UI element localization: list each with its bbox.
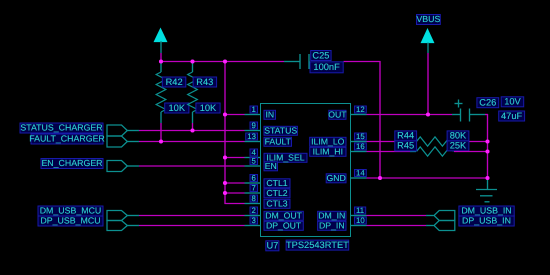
- wire: VBUS to OUT net: [427, 53, 429, 114]
- U7 pin 13 (FAULT): [245, 132, 292, 147]
- svg-text:DP_USB_IN: DP_USB_IN: [462, 216, 511, 226]
- wire: ILIM_HI to R45: [367, 151, 411, 153]
- wire: rail to IN/ILIM_SEL/CTL bus: [224, 61, 226, 204]
- IC U7 TPS2543RTET body: [261, 104, 351, 237]
- wire: pin 11 to DM_USB_IN: [367, 215, 427, 217]
- svg-text:CTL3: CTL3: [266, 198, 287, 208]
- junction: bus / CTL1: [223, 181, 227, 185]
- svg-text:TPS2543RTET: TPS2543RTET: [286, 240, 349, 250]
- hierarchical pin DM_USB_MCU: [38, 206, 139, 221]
- svg-text:GND: GND: [326, 173, 345, 183]
- svg-text:R43: R43: [196, 77, 213, 87]
- wire: ILIM_LO to R44: [367, 141, 411, 143]
- junction: right rail / R44: [485, 139, 489, 143]
- svg-text:STATUS_CHARGER: STATUS_CHARGER: [20, 123, 102, 133]
- svg-text:6: 6: [252, 173, 256, 182]
- U7 pin 10 (DP_IN): [318, 216, 367, 231]
- svg-text:C25: C25: [312, 50, 329, 60]
- resistor R45: [395, 141, 469, 156]
- resistor R42: [156, 61, 189, 123]
- U7 reference designator: [266, 241, 279, 251]
- svg-text:C26: C26: [479, 98, 496, 108]
- U7 pin 12 (OUT): [328, 105, 366, 120]
- svg-text:15: 15: [356, 132, 365, 141]
- svg-text:10K: 10K: [169, 103, 186, 113]
- power arrow (input supply): [155, 29, 167, 53]
- svg-text:DM_USB_MCU: DM_USB_MCU: [40, 206, 102, 216]
- svg-text:ILIM_HI: ILIM_HI: [313, 146, 343, 156]
- junction: OUT / VBUS: [426, 112, 430, 116]
- U7 pin 16 (ILIM_HI): [310, 142, 367, 157]
- svg-text:10: 10: [356, 216, 365, 225]
- wire: bus to pin ILIM_SEL: [225, 157, 245, 159]
- svg-text:R42: R42: [166, 77, 183, 87]
- wire: C25 to GND net: [344, 61, 381, 179]
- U7 pin 11 (DM_IN): [318, 206, 367, 221]
- wire: R45 to right rail: [454, 151, 487, 153]
- junction: rail / R43: [190, 59, 194, 63]
- U7 pin 3 (DP_OUT): [245, 216, 304, 231]
- wire: STATUS_CHARGER to pin 9: [139, 130, 245, 132]
- svg-text:3: 3: [252, 216, 256, 225]
- svg-text:DP_IN: DP_IN: [319, 220, 345, 230]
- capacitor C25: [284, 50, 343, 73]
- ground: [476, 178, 497, 202]
- svg-text:25K: 25K: [450, 141, 467, 151]
- hierarchical pin DP_USB_MCU: [38, 216, 139, 231]
- wire: bus to pin CTL3: [225, 203, 245, 205]
- wire: pin 14 GND to ground: [367, 177, 488, 179]
- wire: OUT to C26: [367, 114, 453, 116]
- svg-text:R44: R44: [397, 131, 414, 141]
- svg-text:CTL1: CTL1: [266, 178, 287, 188]
- wire: supply stem: [160, 53, 162, 62]
- wire: pin 10 to DP_USB_IN: [367, 225, 427, 227]
- svg-text:ILIM_LO: ILIM_LO: [311, 136, 345, 146]
- junction: rail / IN bus: [223, 59, 227, 63]
- U7 pin 8 (CTL3): [245, 194, 291, 209]
- hierarchical pin DM_USB_IN: [426, 206, 514, 221]
- junction: bus / ILIM_SEL: [223, 155, 227, 159]
- wire: R43 to STATUS net: [192, 123, 194, 131]
- svg-text:13: 13: [247, 132, 256, 141]
- U7 pin 5 (EN): [245, 156, 278, 171]
- svg-text:DM_IN: DM_IN: [318, 210, 345, 220]
- junction: R43 / STATUS: [190, 128, 194, 132]
- wire: EN_CHARGER to pin 5: [139, 165, 245, 167]
- junction: C25 / GND wire: [378, 176, 382, 180]
- U7 pin 7 (CTL2): [245, 183, 291, 198]
- wire: DM_USB_MCU to pin 2: [139, 215, 245, 217]
- junction: bus / CTL2: [223, 191, 227, 195]
- wire: bus to pin CTL2: [225, 192, 245, 194]
- svg-text:11: 11: [356, 206, 364, 215]
- resistor R43: [188, 61, 220, 123]
- wire: DP_USB_MCU to pin 3: [139, 225, 245, 227]
- U7 pin 2 (DM_OUT): [245, 206, 304, 221]
- junction: R42 / FAULT: [159, 139, 163, 143]
- svg-text:100nF: 100nF: [313, 62, 340, 72]
- svg-text:U7: U7: [266, 241, 278, 251]
- hierarchical pin EN_CHARGER: [41, 158, 139, 171]
- svg-text:10V: 10V: [504, 97, 521, 107]
- svg-text:47uF: 47uF: [501, 111, 523, 121]
- svg-text:5: 5: [252, 156, 257, 165]
- wire: R42 to FAULT net: [160, 123, 162, 142]
- svg-text:DP_USB_MCU: DP_USB_MCU: [40, 216, 100, 226]
- svg-text:12: 12: [356, 105, 365, 114]
- svg-text:OUT: OUT: [328, 109, 347, 119]
- label 10V: [501, 97, 524, 107]
- U7 pin 14 (GND): [326, 168, 366, 183]
- junction: bus / IN: [223, 112, 227, 116]
- svg-text:16: 16: [356, 142, 365, 151]
- wire: bus to pin IN: [225, 114, 245, 116]
- svg-text:EN_CHARGER: EN_CHARGER: [41, 158, 102, 168]
- svg-text:1: 1: [252, 105, 256, 114]
- svg-text:DM_OUT: DM_OUT: [265, 210, 302, 220]
- svg-text:STATUS: STATUS: [264, 125, 297, 135]
- capacitor C26 (polarized): [452, 98, 525, 122]
- power flag VBUS: [416, 14, 440, 53]
- U7 pin 9 (STATUS): [245, 121, 298, 136]
- svg-text:VBUS: VBUS: [416, 14, 440, 24]
- svg-text:80K: 80K: [450, 131, 467, 141]
- junction: right rail / R45: [485, 149, 489, 153]
- svg-text:EN: EN: [265, 161, 277, 171]
- svg-text:CTL2: CTL2: [266, 188, 287, 198]
- wire: supply rail: [161, 61, 285, 63]
- svg-text:10K: 10K: [200, 103, 217, 113]
- U7 pin 4 (ILIM_SEL): [245, 148, 308, 163]
- junction: right rail / GND wire: [485, 176, 489, 180]
- hierarchical pin STATUS_CHARGER: [20, 123, 139, 136]
- U7 pin 1 (IN): [245, 105, 276, 120]
- wire: FAULT_CHARGER to pin 13: [139, 141, 245, 143]
- svg-text:IN: IN: [265, 109, 274, 119]
- svg-text:9: 9: [252, 121, 256, 130]
- svg-text:DP_OUT: DP_OUT: [266, 220, 302, 230]
- resistor R44: [395, 131, 469, 146]
- svg-text:FAULT: FAULT: [265, 136, 292, 146]
- svg-text:DM_USB_IN: DM_USB_IN: [461, 206, 511, 216]
- svg-text:R45: R45: [397, 141, 414, 151]
- svg-text:7: 7: [252, 183, 256, 192]
- hierarchical pin DP_USB_IN: [426, 216, 514, 231]
- wire: C26 to ground rail: [485, 114, 488, 179]
- svg-text:FAULT_CHARGER: FAULT_CHARGER: [29, 134, 105, 144]
- svg-text:14: 14: [356, 168, 365, 177]
- wire: R44 to right rail: [454, 141, 487, 143]
- wire: bus to pin CTL1: [225, 182, 245, 184]
- U7 pin 6 (CTL1): [245, 173, 291, 188]
- hierarchical pin FAULT_CHARGER: [29, 134, 139, 147]
- U7 pin 15 (ILIM_LO): [310, 132, 367, 147]
- U7 value TPS2543RTET: [286, 240, 349, 250]
- svg-text:2: 2: [252, 206, 256, 215]
- svg-text:8: 8: [252, 194, 256, 203]
- junction: rail / R42: [159, 59, 163, 63]
